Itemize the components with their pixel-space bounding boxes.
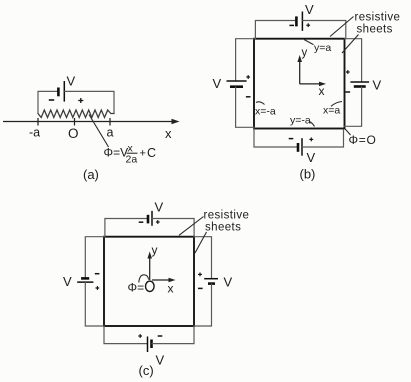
svg-text:x: x bbox=[165, 126, 172, 141]
left battery plus (b) bbox=[246, 76, 250, 78]
bottom battery minus (c) bbox=[158, 335, 163, 337]
svg-text:V: V bbox=[155, 200, 164, 215]
label resistive sheets (b) bbox=[330, 12, 400, 54]
svg-text:resistive: resistive bbox=[355, 12, 401, 24]
svg-text:y=-a: y=-a bbox=[290, 115, 311, 127]
resistive sheet square (b) bbox=[254, 39, 345, 129]
left battery minus (c) bbox=[95, 273, 100, 275]
svg-text:(b): (b) bbox=[300, 167, 316, 182]
origin O circle (c) bbox=[146, 281, 155, 291]
svg-text:Φ=O: Φ=O bbox=[349, 133, 377, 147]
bottom battery loop wire right (b) bbox=[303, 130, 344, 148]
x axis (c) bbox=[152, 278, 176, 283]
wire right side of battery loop (a) bbox=[65, 91, 114, 113]
pointer line to potential formula (a) bbox=[89, 115, 109, 148]
top battery short plate (b) bbox=[295, 16, 298, 26]
top battery minus (b) bbox=[289, 24, 294, 26]
svg-text:(a): (a) bbox=[83, 167, 99, 182]
top battery plus (c) bbox=[156, 221, 160, 223]
x axis (b) bbox=[300, 82, 326, 87]
svg-text:V: V bbox=[305, 2, 314, 17]
left battery long plate (c) bbox=[77, 281, 93, 283]
resistive sheet square (c) bbox=[104, 237, 194, 326]
left battery plus (c) bbox=[96, 287, 100, 289]
right battery loop wire bottom (b) bbox=[345, 87, 362, 126]
right battery short plate (c) bbox=[208, 282, 215, 285]
battery B1 minus sign bbox=[49, 99, 54, 101]
svg-text:Φ=V: Φ=V bbox=[104, 146, 129, 160]
right battery minus (c) bbox=[198, 287, 203, 289]
svg-text:V: V bbox=[373, 78, 382, 93]
bottom battery loop wire left (c) bbox=[104, 326, 147, 344]
svg-text:y: y bbox=[152, 243, 158, 257]
svg-text:(c): (c) bbox=[139, 363, 154, 378]
right battery loop wire bottom (c) bbox=[194, 284, 212, 326]
left battery loop wire bottom (b) bbox=[236, 87, 254, 127]
svg-text:V: V bbox=[213, 76, 222, 91]
label resistive sheets (c) bbox=[179, 210, 249, 254]
resistor sheet zigzag (a) bbox=[38, 110, 114, 118]
battery B1 long plate (a) bbox=[63, 81, 65, 102]
svg-text:+: + bbox=[140, 148, 146, 160]
svg-text:x=-a: x=-a bbox=[255, 106, 276, 118]
svg-text:x: x bbox=[168, 282, 174, 296]
svg-text:2a: 2a bbox=[126, 154, 138, 166]
left battery loop wire top (b) bbox=[236, 39, 254, 81]
svg-text:V: V bbox=[224, 275, 233, 290]
left battery minus (b) bbox=[246, 96, 251, 98]
tick a bbox=[109, 118, 111, 126]
wire left side of battery loop (a) bbox=[38, 91, 58, 113]
bottom battery minus (b) bbox=[289, 138, 294, 140]
svg-text:a: a bbox=[107, 126, 114, 140]
right battery plus (c) bbox=[198, 273, 202, 275]
svg-text:x: x bbox=[319, 84, 325, 98]
left battery long plate (b) bbox=[227, 80, 247, 82]
right battery plus (b) bbox=[346, 71, 350, 73]
right battery loop wire top (c) bbox=[194, 237, 212, 279]
svg-text:sheets: sheets bbox=[357, 24, 393, 36]
svg-text:-a: -a bbox=[29, 126, 40, 140]
right battery loop wire top (b) bbox=[345, 39, 362, 82]
formula phi = V x/2a + C bbox=[104, 143, 157, 166]
left battery short plate (b) bbox=[230, 85, 243, 88]
label phi=0 with pointer (b) bbox=[345, 129, 377, 147]
svg-text:C: C bbox=[147, 146, 156, 160]
right battery long plate (b) bbox=[350, 81, 369, 83]
bottom battery plus (b) bbox=[309, 138, 313, 140]
top battery loop wire left (c) bbox=[105, 219, 147, 237]
arc arrow over origin (c) bbox=[139, 275, 149, 283]
left battery loop wire top (c) bbox=[85, 237, 104, 278]
bottom battery long plate (c) bbox=[147, 337, 149, 353]
label y=a with pointer (b) bbox=[304, 40, 331, 55]
svg-text:resistive: resistive bbox=[204, 210, 250, 222]
bottom battery loop wire left (b) bbox=[254, 129, 298, 148]
label x=-a with pointer (b) bbox=[255, 102, 276, 118]
svg-text:Φ=: Φ= bbox=[128, 281, 145, 295]
tick O bbox=[74, 118, 76, 126]
x-axis of figure (a) bbox=[3, 119, 180, 124]
battery B1 short plate (a) bbox=[57, 88, 60, 97]
svg-text:y: y bbox=[302, 47, 308, 59]
label x=a with pointer (b) bbox=[323, 102, 342, 117]
bottom battery long plate (b) bbox=[301, 138, 303, 156]
label y=-a with pointer (b) bbox=[290, 115, 315, 127]
y axis (b) bbox=[297, 55, 302, 84]
y axis (c) bbox=[147, 252, 152, 281]
right battery minus (b) bbox=[346, 91, 351, 93]
svg-text:V: V bbox=[67, 74, 76, 89]
top battery minus (c) bbox=[139, 221, 144, 223]
svg-text:sheets: sheets bbox=[205, 222, 241, 234]
svg-text:V: V bbox=[307, 150, 316, 165]
svg-text:V: V bbox=[156, 353, 165, 368]
left battery loop wire bottom (c) bbox=[85, 283, 104, 326]
battery B1 plus sign bbox=[78, 100, 83, 102]
bottom battery short plate (b) bbox=[297, 143, 300, 152]
bottom battery short plate (c) bbox=[150, 340, 153, 349]
top battery loop wire left (b) bbox=[255, 21, 296, 39]
right battery short plate (b) bbox=[354, 85, 366, 88]
svg-text:V: V bbox=[63, 274, 72, 289]
tick -a bbox=[37, 118, 39, 126]
top battery loop wire right (c) bbox=[153, 219, 195, 237]
left battery short plate (c) bbox=[81, 277, 89, 280]
svg-text:O: O bbox=[68, 126, 79, 141]
top battery loop wire right (b) bbox=[303, 21, 346, 39]
bottom battery loop wire right (c) bbox=[152, 326, 194, 344]
top battery long plate (c) bbox=[151, 211, 153, 226]
top battery long plate (b) bbox=[301, 12, 303, 31]
svg-text:y=a: y=a bbox=[314, 42, 331, 54]
top battery short plate (c) bbox=[147, 215, 150, 224]
bottom battery plus (c) bbox=[138, 335, 142, 337]
right battery long plate (c) bbox=[204, 278, 218, 280]
top battery plus (b) bbox=[306, 24, 310, 26]
